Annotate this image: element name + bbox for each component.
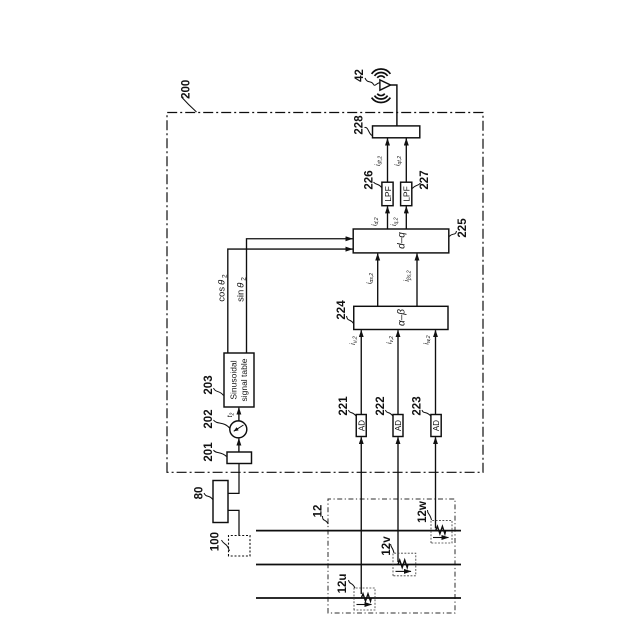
svg-text:228: 228 xyxy=(354,115,366,135)
AD block 221 xyxy=(356,415,366,437)
leader 221 xyxy=(349,410,357,416)
wire sensor 12u to AD221 xyxy=(360,437,362,594)
svg-text:iqt,2: iqt,2 xyxy=(395,156,403,166)
phase line 3 xyxy=(256,597,461,599)
wire sin out of 203 xyxy=(247,239,353,353)
svg-text:227: 227 xyxy=(419,170,431,189)
svg-text:iv,2: iv,2 xyxy=(387,336,395,344)
svg-text:221: 221 xyxy=(338,396,350,416)
wire 80 to 201 xyxy=(228,464,239,494)
svg-text:202: 202 xyxy=(203,409,215,428)
wire 201 to 202 xyxy=(238,439,240,452)
circle 202 inner mark xyxy=(234,425,244,431)
phase line 1 xyxy=(256,530,461,532)
box 12 (dash-dot) xyxy=(328,499,455,613)
phase line 2 xyxy=(256,564,461,566)
leader 203 xyxy=(214,388,224,396)
svg-text:AD: AD xyxy=(432,420,441,431)
svg-text:AD: AD xyxy=(394,420,403,431)
wire LPF227 to 228 xyxy=(405,139,407,183)
svg-text:signal table: signal table xyxy=(239,358,249,401)
LPF block 226 xyxy=(382,182,393,206)
leader 12v xyxy=(391,544,395,553)
leader 100 xyxy=(222,540,230,551)
leader 202 xyxy=(214,420,231,429)
block 225 d-q xyxy=(353,229,449,253)
LPF block 227 xyxy=(401,182,412,206)
sensor 12v zigzag xyxy=(398,560,408,568)
wire AD222 to 224 xyxy=(397,330,399,414)
block 201 xyxy=(227,452,252,464)
block 228 xyxy=(373,126,420,138)
svg-text:iq,2: iq,2 xyxy=(391,217,399,226)
boundary box 200 (dash-dot) xyxy=(167,113,483,473)
sensor 12w zigzag xyxy=(436,526,446,534)
leader 224 xyxy=(347,316,354,324)
wire LPF226 to 228 xyxy=(387,139,389,183)
block 80 xyxy=(213,481,228,523)
svg-text:t2: t2 xyxy=(227,412,235,417)
sensor 12u zigzag xyxy=(361,594,371,601)
AD block 223 xyxy=(431,415,441,437)
wire 202 to 203 xyxy=(238,408,240,421)
sensor 12w box xyxy=(431,520,452,543)
svg-text:α–β: α–β xyxy=(397,309,408,326)
svg-text:226: 226 xyxy=(364,170,376,189)
sensor 12u arrow xyxy=(357,604,372,606)
wire 224 to 225 (beta) xyxy=(416,254,418,307)
leader 80 xyxy=(204,493,213,500)
svg-text:AD: AD xyxy=(357,420,366,431)
wire sensor 12v to AD222 xyxy=(397,437,399,562)
wire 224 to 225 (alpha) xyxy=(377,254,379,307)
svg-text:42: 42 xyxy=(354,69,366,82)
svg-text:203: 203 xyxy=(203,375,215,394)
svg-text:12u: 12u xyxy=(337,574,349,594)
AD block 222 xyxy=(393,415,403,437)
svg-text:d–q: d–q xyxy=(397,232,408,249)
antenna 42 triangle xyxy=(380,80,391,90)
svg-text:12w: 12w xyxy=(417,501,429,523)
leader 12u xyxy=(349,580,356,588)
leader 200 xyxy=(182,97,197,112)
leader 201 xyxy=(214,450,227,457)
svg-text:sin θ 2: sin θ 2 xyxy=(236,277,248,302)
svg-text:200: 200 xyxy=(181,80,193,99)
leader 12 xyxy=(323,516,329,524)
sensor 12v box xyxy=(393,553,416,576)
svg-text:iαs,2: iαs,2 xyxy=(367,273,375,284)
sensor 12u box xyxy=(354,588,375,610)
antenna waves right xyxy=(372,69,391,78)
svg-text:12: 12 xyxy=(313,505,325,518)
leader 228 xyxy=(365,127,373,135)
leader 226 xyxy=(374,182,382,188)
svg-text:LPF: LPF xyxy=(383,186,393,202)
wire cos out of 203 xyxy=(228,249,353,353)
svg-text:222: 222 xyxy=(375,396,387,415)
oscillator circle 202 xyxy=(230,421,247,438)
leader 222 xyxy=(386,410,393,416)
leader 42 xyxy=(365,78,380,85)
svg-text:100: 100 xyxy=(210,532,222,551)
svg-text:80: 80 xyxy=(194,487,206,500)
svg-text:201: 201 xyxy=(203,442,215,462)
wire AD223 to 224 xyxy=(435,330,437,414)
svg-text:LPF: LPF xyxy=(402,186,412,202)
svg-text:Sinusoidal: Sinusoidal xyxy=(229,360,239,399)
wire 225 to LPF226 xyxy=(387,206,389,229)
svg-text:id,2: id,2 xyxy=(372,217,380,226)
antenna feed wire xyxy=(391,85,397,126)
svg-text:iu,2: iu,2 xyxy=(350,336,358,345)
svg-text:iw,2: iw,2 xyxy=(424,335,432,344)
leader 225 xyxy=(449,231,456,237)
wire 225 to LPF227 xyxy=(405,206,407,229)
svg-text:iβs,2: iβs,2 xyxy=(404,270,412,281)
sensor 12v arrow xyxy=(396,570,412,572)
antenna waves left xyxy=(372,94,391,103)
svg-text:223: 223 xyxy=(412,396,424,415)
leader 223 xyxy=(422,410,431,416)
wire sensor 12w to AD223 xyxy=(435,437,437,528)
svg-text:idt,2: idt,2 xyxy=(375,156,383,166)
block 224 alpha-beta xyxy=(354,306,448,329)
svg-text:cos θ 2: cos θ 2 xyxy=(217,274,229,302)
leader 227 xyxy=(412,183,420,189)
svg-text:225: 225 xyxy=(457,218,469,238)
leader 12w xyxy=(428,510,432,520)
block 100 (dashed) xyxy=(229,536,251,557)
wire AD221 to 224 xyxy=(360,330,362,414)
wire 80 to 100 xyxy=(228,510,239,535)
sensor 12w arrow xyxy=(433,537,449,539)
block 203 sinusoidal signal table xyxy=(224,353,254,407)
